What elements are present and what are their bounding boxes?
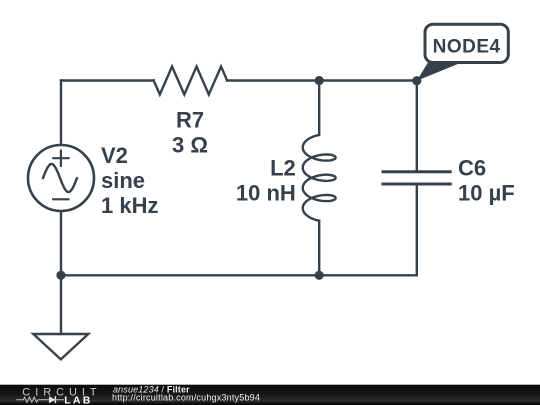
capacitor C6 [383, 172, 450, 184]
wire top-right horizontal [227, 79, 417, 81]
svg-text:R7: R7 [176, 107, 204, 132]
svg-text:http://circuitlab.com/cuhgx3nt: http://circuitlab.com/cuhgx3nty5b94 [112, 392, 260, 402]
NODE4 flag box [425, 24, 508, 62]
junction dot inductor-bottom [315, 271, 324, 280]
logo resistor [23, 397, 38, 402]
svg-text:C6: C6 [458, 156, 486, 181]
logo wire end [55, 399, 64, 401]
NODE4 flag tail [417, 62, 464, 81]
node dot NODE4 [412, 76, 421, 85]
svg-text:1 kHz: 1 kHz [101, 193, 158, 218]
voltage source sine [43, 164, 77, 192]
logo wire mid [38, 399, 49, 401]
logo wire lead [16, 399, 23, 401]
wire top-left horizontal [61, 79, 154, 81]
wire capacitor bottom [416, 184, 418, 275]
wire bottom rail [61, 274, 417, 276]
junction dot left-bottom [56, 271, 65, 280]
ground [33, 334, 88, 359]
voltage source V2 circle [28, 145, 94, 211]
wire left vertical lower [60, 211, 62, 334]
resistor R7 [154, 67, 227, 95]
wire inductor bottom [318, 221, 320, 276]
voltage source minus [53, 198, 68, 200]
svg-text:10 µF: 10 µF [458, 181, 515, 206]
svg-text:LAB: LAB [64, 395, 92, 405]
svg-text:NODE4: NODE4 [433, 37, 501, 58]
junction dot inductor-top [315, 76, 324, 85]
svg-text:3 Ω: 3 Ω [172, 133, 208, 158]
footer bar [0, 385, 540, 405]
logo diode [49, 396, 55, 403]
wire left vertical upper [60, 81, 62, 146]
svg-text:10 nH: 10 nH [236, 180, 296, 205]
wire inductor top [318, 81, 320, 135]
inductor L2 [303, 135, 336, 221]
wire capacitor top [416, 81, 418, 172]
voltage source plus [53, 151, 68, 166]
svg-text:L2: L2 [270, 155, 296, 180]
svg-text:sine: sine [101, 168, 145, 193]
svg-text:V2: V2 [101, 143, 128, 168]
